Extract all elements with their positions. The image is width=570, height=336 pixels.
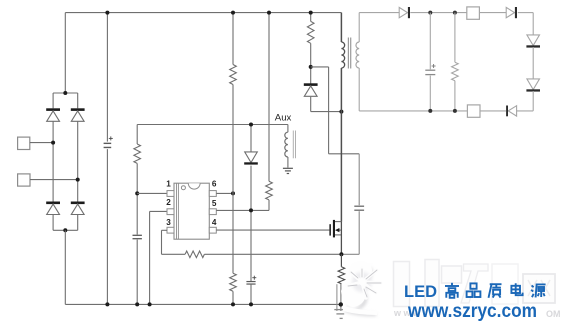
node output res top bbox=[453, 11, 457, 15]
node bottom rail bulk cap bbox=[105, 302, 109, 306]
svg-text:1: 1 bbox=[166, 179, 171, 188]
node bottom rail R6 bbox=[231, 302, 235, 306]
node drain clamp junction bbox=[339, 110, 343, 114]
wire pin3 to sense resistor bbox=[162, 230, 186, 254]
resistor R3 startup bbox=[266, 181, 273, 200]
transistor Q1 channel bar bbox=[333, 220, 335, 238]
node mosfet source junction bbox=[339, 252, 343, 256]
svg-text:6: 6 bbox=[212, 179, 217, 188]
wire bridge top horizontal bbox=[53, 93, 78, 108]
inductor L1 Aux winding bbox=[285, 125, 288, 168]
terminal J1 AC input 1 bbox=[18, 137, 30, 149]
node output cap top bbox=[428, 11, 432, 15]
terminal J4 output minus bbox=[467, 105, 480, 117]
diode D6 clamp bbox=[304, 83, 318, 96]
wire bottom rail bbox=[65, 303, 341, 305]
svg-text:5: 5 bbox=[212, 199, 217, 208]
wire startup resistor column bbox=[268, 13, 270, 211]
pin 6 box bbox=[209, 191, 216, 197]
wire left column from top rail to bridge bbox=[64, 13, 66, 93]
node top rail bulk cap bbox=[105, 11, 109, 15]
diode D5 Vcc rectifier bbox=[244, 152, 258, 165]
resistor R7 current sense bbox=[338, 254, 345, 283]
diode D7 output rectifier bbox=[399, 7, 410, 18]
watermark hanzi yuan bbox=[531, 284, 545, 297]
capacitor C2 bbox=[133, 235, 142, 238]
wire Vcc diode column bbox=[250, 125, 252, 305]
diode D4 bridge bottom-right bbox=[71, 202, 85, 215]
pin number 2 bbox=[166, 198, 171, 207]
svg-text:LED: LED bbox=[404, 283, 437, 301]
resistor R2 snubber bbox=[307, 21, 314, 43]
wire pin4 gate drive bbox=[216, 229, 329, 231]
wire clamp jog to snubber cap bbox=[311, 67, 360, 154]
pin number 4 bbox=[212, 218, 217, 227]
node bridge top junction bbox=[63, 91, 67, 95]
node bottom rail pin2 branch bbox=[148, 302, 152, 306]
resistor R5 horizontal bbox=[185, 251, 204, 258]
pin 2 box bbox=[167, 209, 174, 215]
node output bottom cap bbox=[428, 109, 432, 113]
wire top rail bbox=[65, 12, 341, 14]
pin number 1 bbox=[166, 179, 171, 188]
diode D3 bridge bottom-left bbox=[46, 202, 60, 215]
resistor R4 bbox=[134, 144, 141, 163]
watermark blue title LED bbox=[404, 283, 437, 301]
pin 1 box bbox=[167, 191, 174, 197]
pin number 5 bbox=[212, 199, 217, 208]
svg-text:3: 3 bbox=[166, 218, 171, 227]
watermark star burst bbox=[341, 261, 381, 316]
wire D11 to terminal J4 bbox=[480, 110, 506, 112]
svg-text:www.szryc.com: www.szryc.com bbox=[407, 301, 537, 322]
node top rail snubber bbox=[309, 11, 313, 15]
node bottom rail C3 bbox=[249, 302, 253, 306]
svg-text:Aux: Aux bbox=[275, 112, 292, 123]
wire sense parallel pair to ground bbox=[337, 284, 341, 311]
pin number 6 bbox=[212, 179, 217, 188]
capacitor C5 output bbox=[425, 64, 435, 75]
node pin5 diode junction bbox=[249, 208, 253, 212]
node pin6 junction bbox=[231, 191, 235, 195]
wire output cap branch bbox=[429, 13, 431, 111]
resistor R6 bbox=[230, 273, 237, 291]
transistor Q1 MOSFET gate bar bbox=[329, 224, 331, 235]
resistor R1 bbox=[230, 65, 237, 85]
transformer T1 secondary bbox=[356, 13, 359, 111]
diode D9 LED bbox=[526, 35, 540, 48]
label Aux bbox=[275, 112, 292, 123]
ground aux bbox=[283, 168, 293, 173]
wire R4 branch column bbox=[136, 125, 138, 305]
ground main bbox=[334, 310, 347, 319]
wire pin2 to bottom rail bbox=[150, 211, 167, 304]
node bottom rail ground bbox=[339, 302, 343, 306]
transformer T1 primary bbox=[341, 13, 344, 222]
wire secondary top to D7 bbox=[359, 12, 399, 14]
wire clamp return to drain bbox=[311, 111, 342, 113]
watermark hanzi pin bbox=[467, 283, 481, 297]
wire snubber column bbox=[310, 13, 312, 112]
pin number 3 bbox=[166, 218, 171, 227]
svg-text:2: 2 bbox=[166, 198, 171, 207]
transistor Q1 drain source stubs bbox=[335, 222, 341, 235]
Aux core lines bbox=[293, 131, 295, 159]
watermark hanzi dian bbox=[511, 283, 522, 295]
watermark url bbox=[407, 301, 537, 322]
wire pin6 bbox=[216, 192, 233, 194]
resistor R8 output bleeder bbox=[452, 62, 459, 80]
watermark hanzi gao bbox=[445, 283, 459, 298]
diode D11 return bbox=[506, 106, 516, 117]
pin 4 box bbox=[209, 227, 216, 233]
wire pin5 Vcc bbox=[216, 209, 269, 211]
capacitor C4 snubber bbox=[354, 206, 364, 210]
wire pin1 bbox=[137, 192, 167, 194]
wire J1 to bridge bbox=[30, 142, 53, 144]
wire output bottom return bbox=[359, 110, 467, 112]
wire J2 to bridge bbox=[30, 179, 78, 181]
wire D9 to D10 bbox=[532, 47, 534, 79]
op-amp U1 controller IC DIP-8 body bbox=[174, 183, 209, 239]
wire J3 to D8 bbox=[479, 12, 506, 14]
diode D2 bridge top-right bbox=[71, 108, 85, 121]
capacitor C1 bulk electrolytic bbox=[104, 136, 113, 147]
wire D7 to terminal J3 bbox=[410, 12, 467, 14]
wire output res branch bbox=[454, 13, 456, 111]
terminal J3 output plus bbox=[467, 7, 480, 19]
diode D10 LED bbox=[526, 79, 540, 92]
diode D1 bridge top-left bbox=[46, 108, 60, 121]
watermark ghost letters bbox=[393, 260, 561, 320]
node bottom rail C2 bbox=[135, 302, 139, 306]
pin 3 box bbox=[167, 227, 174, 233]
node output bottom res bbox=[453, 109, 457, 113]
wire snubber cap branch bbox=[341, 154, 359, 255]
node top rail startup bbox=[267, 11, 271, 15]
watermark hanzi zhi bbox=[489, 284, 502, 298]
wire bridge bottom horizontal bbox=[53, 215, 78, 231]
node J2 junction bbox=[76, 178, 80, 182]
svg-text:4: 4 bbox=[212, 218, 217, 227]
diode D8 bbox=[506, 7, 517, 18]
node R4 pin1 junction bbox=[135, 191, 139, 195]
node aux wire diode bbox=[249, 123, 253, 127]
transformer T1 core bbox=[348, 38, 350, 69]
wire bridge left mid bbox=[52, 121, 54, 202]
wire D10 to bottom corner bbox=[517, 91, 534, 111]
wire R1 R6 column bbox=[232, 13, 234, 305]
wire mosfet drain column bbox=[340, 222, 342, 255]
node bridge bottom junction bbox=[63, 228, 67, 232]
wire R5 to mosfet source bbox=[204, 253, 341, 255]
node J1 junction bbox=[51, 141, 55, 145]
capacitor C3 Vcc bbox=[246, 276, 256, 284]
node snubber RD junction bbox=[309, 65, 313, 69]
wire aux top horizontal bbox=[137, 124, 288, 126]
svg-text:OM: OM bbox=[546, 309, 561, 319]
terminal J2 AC input 2 bbox=[18, 174, 30, 186]
pin 5 box bbox=[209, 209, 216, 215]
node top rail R1 bbox=[231, 11, 235, 15]
wire bridge stem to bottom rail bbox=[64, 230, 66, 304]
wire bridge right mid bbox=[77, 121, 79, 202]
wire bulk cap branch bbox=[106, 13, 108, 305]
wire D8 to right column bbox=[518, 13, 533, 35]
